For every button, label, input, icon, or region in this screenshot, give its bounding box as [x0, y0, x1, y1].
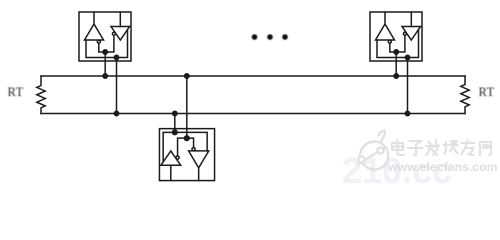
receiver U2A inverting input bubble: [388, 40, 391, 43]
driver U2B inverting output wire: [396, 35, 405, 52]
node U2-B on bottom bus: [405, 111, 409, 115]
box U3: [159, 129, 214, 181]
driver U2B inverting output bubble: [403, 32, 406, 35]
receiver U1A output wire: [93, 12, 95, 24]
driver U3B inverting output bubble: [176, 156, 179, 159]
driver U2B input wire: [410, 12, 412, 27]
driver U1B input wire: [119, 12, 121, 27]
receiver U2A inverting input wire: [390, 43, 396, 52]
wire U3 pin A to top bus: [186, 76, 188, 138]
node U2 pin B junction: [405, 55, 409, 59]
receiver U1A non-inverting input wire: [86, 40, 117, 58]
driver U1B inverting output wire: [105, 35, 114, 52]
driver U3B: [161, 151, 181, 165]
node U1 pin B junction: [114, 55, 118, 59]
transceiver U1 (top left): [79, 12, 131, 61]
box U2: [370, 12, 422, 61]
bottom bus wire B: [41, 113, 465, 115]
receiver U3A: [189, 151, 209, 168]
wire U2 pin B to bottom bus: [407, 58, 409, 114]
receiver U2A non-inverting input wire: [377, 40, 408, 58]
receiver U3A inverting input wire: [187, 138, 194, 147]
node U2 pin A junction: [394, 50, 398, 54]
box U1: [79, 12, 131, 61]
svg-text:RT: RT: [8, 85, 24, 99]
wire U1 pin B to bottom bus: [116, 58, 118, 114]
node U2-A on top bus: [394, 74, 398, 78]
transceiver U3 (bottom, rotated 180): [159, 129, 214, 181]
driver U3B non-inverting output wire: [163, 132, 175, 162]
svg-text:www.elecfans.com: www.elecfans.com: [387, 160, 498, 174]
driver U1B inverting output bubble: [112, 32, 115, 35]
ellipsis continuation dots: [252, 34, 288, 40]
node U1 pin A junction: [103, 50, 107, 54]
transceiver U2 (top right): [370, 12, 422, 61]
receiver U1A inverting input bubble: [97, 40, 100, 43]
receiver U2A output wire: [384, 12, 386, 24]
node U1-A on top bus: [103, 74, 107, 78]
receiver U1A inverting input wire: [99, 43, 105, 52]
receiver U3A non-inverting input wire: [175, 132, 207, 151]
node U3-B on bottom bus: [173, 111, 177, 115]
node U1-B on bottom bus: [114, 111, 118, 115]
driver U1B: [111, 27, 130, 41]
node U3 pin B junction: [172, 130, 177, 135]
driver U3B input wire: [170, 165, 172, 180]
watermark site name (stylized CJK strokes): [392, 140, 491, 155]
node U3 pin A junction: [184, 136, 189, 141]
receiver U2A: [376, 24, 395, 40]
wire U2 pin A to top bus: [395, 52, 397, 76]
receiver U3A output wire: [198, 168, 200, 181]
svg-text:RT: RT: [479, 85, 495, 99]
driver U3B inverting output wire: [178, 138, 187, 156]
wire U1 pin A to top bus: [104, 52, 106, 76]
receiver U3A inverting input bubble: [192, 148, 195, 151]
resistor RT (right): [461, 76, 469, 114]
node U3-A on top bus: [185, 74, 189, 78]
wire U3 pin B to bottom bus: [174, 114, 176, 133]
driver U2B: [402, 27, 421, 41]
driver U2B non-inverting output wire: [408, 30, 419, 58]
driver U1B non-inverting output wire: [117, 30, 128, 58]
watermark logo: [358, 131, 389, 170]
top bus wire A: [41, 75, 465, 77]
resistor RT (left): [37, 76, 45, 114]
receiver U1A: [85, 24, 104, 40]
